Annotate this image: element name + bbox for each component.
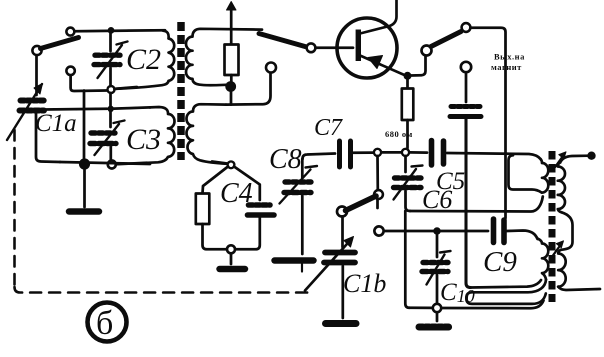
wire emitter to switch riser xyxy=(411,56,426,76)
junction dot emitter node xyxy=(404,72,412,80)
label output two-line small text xyxy=(494,52,525,62)
capacitor C6 trimmer arrow xyxy=(394,166,423,200)
wire C1a bottom stem to bottom rail xyxy=(36,113,60,162)
switch S2 moving contact xyxy=(422,46,432,56)
switch S2 arm xyxy=(431,32,461,47)
circled letter b figure label xyxy=(88,303,127,343)
wire top rail left xyxy=(75,30,166,31)
wire secondary top lead with dot xyxy=(560,156,589,163)
wire resistor R3 top lead xyxy=(406,79,409,88)
wire C5 to output transformer xyxy=(447,153,541,159)
transformer T1 upper-right winding xyxy=(186,29,262,86)
node C10 bottom circle xyxy=(433,304,441,312)
svg-text:C1b: C1b xyxy=(343,269,386,298)
ground ground1 bar xyxy=(69,208,99,215)
transistor Q1 collector xyxy=(360,0,397,34)
wire C4 bottom lead xyxy=(236,218,260,250)
capacitor C10 plates (trimmer) xyxy=(422,263,448,272)
node C3 bottom xyxy=(108,161,116,169)
svg-text:Вых.на: Вых.на xyxy=(494,52,525,62)
transformer T2 lower secondary winding xyxy=(558,250,566,287)
wire C2 bottom stem xyxy=(109,68,112,86)
capacitor C coupling plates xyxy=(450,107,481,117)
wire lower-right lead to terminal riser xyxy=(226,73,271,105)
capacitor C1b arrow xyxy=(305,240,351,291)
transformer T2 secondary arrow upper xyxy=(554,156,563,169)
label output second line xyxy=(491,62,522,72)
capacitor C1b plates xyxy=(324,253,355,263)
antenna arrowhead xyxy=(227,2,237,11)
switch S3 selected contact xyxy=(337,207,347,217)
transistor Q1 base bar xyxy=(356,30,361,62)
svg-text:C7: C7 xyxy=(314,115,343,141)
transformer T1 lower-right winding xyxy=(187,104,228,164)
wire node1 to node2 xyxy=(382,151,402,154)
capacitor C7 plates xyxy=(340,141,351,167)
node junction top rail xyxy=(108,27,115,34)
transformer T2 upper primary inner turn xyxy=(509,155,542,192)
svg-text:C6: C6 xyxy=(422,185,452,214)
terminal dot secondary top xyxy=(587,152,595,160)
wire C1a stem from switch xyxy=(35,55,38,95)
wire branch vertical x84 xyxy=(83,91,86,161)
svg-text:680 ом: 680 ом xyxy=(385,129,413,139)
dashed gang line corner and horizontal xyxy=(15,287,313,293)
wire A from C6 corner to output transformer xyxy=(410,197,543,212)
capacitor C10 trimmer arrow xyxy=(427,251,451,285)
wire C6 top stem xyxy=(404,156,407,172)
ground ground5 hatched bar xyxy=(419,324,451,331)
capacitor C8 plates (trimmer) xyxy=(284,182,311,193)
terminal contact coupling cap top xyxy=(461,62,471,72)
ground ground4 bar xyxy=(326,320,357,327)
label R3 value small text xyxy=(385,129,413,139)
wire lower-right winding to Y node xyxy=(212,162,227,164)
switch S1a terminal contact xyxy=(32,46,41,55)
resistor R3 xyxy=(402,89,414,121)
svg-text:C8: C8 xyxy=(269,144,302,175)
transistor Q1 emitter xyxy=(360,56,406,76)
wire Y node right branch xyxy=(234,167,260,201)
node Y junction xyxy=(228,161,235,168)
capacitor C9 plates xyxy=(494,219,505,243)
capacitor C8 trimmer arrow xyxy=(280,166,318,204)
wire C3 bottom stem xyxy=(109,147,112,161)
wire C8 stem xyxy=(301,159,304,178)
wire switch S3 stem from node1 xyxy=(376,156,379,190)
wire Y node left branch xyxy=(203,167,229,194)
ground ground2 bar xyxy=(220,266,246,273)
svg-text:C9: C9 xyxy=(483,246,517,278)
svg-text:магнит: магнит xyxy=(491,62,522,72)
wire node2 to C5 xyxy=(410,151,428,154)
junction dot C10 tap xyxy=(433,227,441,235)
switch S2 fixed contact xyxy=(462,23,471,32)
capacitor C2 trimmer arrow xyxy=(98,42,128,79)
capacitor C1a arrow xyxy=(7,84,42,140)
wire C10 bottom stem xyxy=(436,275,439,304)
transistor Q1 emitter arrowhead (PNP) xyxy=(368,56,383,69)
ground ground2 stem xyxy=(230,254,233,265)
terminal contact input circle xyxy=(374,226,383,235)
node C3 mid junction xyxy=(108,106,114,112)
wire C10 top stem xyxy=(436,235,439,257)
switch terminal contact C1a branch xyxy=(66,67,74,75)
wire coupling cap long stem down xyxy=(466,119,471,288)
wire rail to lower-left winding xyxy=(116,163,147,165)
transformer T2 lower primary winding xyxy=(538,239,549,280)
terminal contact base side xyxy=(307,43,316,52)
ground ground3 bar xyxy=(275,257,314,264)
capacitor C6 plates (trimmer) xyxy=(394,178,422,188)
transformer T2 upper secondary winding xyxy=(558,163,565,213)
wire switch to output column xyxy=(471,28,506,218)
switch S3 stub below pivot xyxy=(376,200,379,209)
transformer T2 upper primary winding xyxy=(541,159,549,193)
capacitor C1a plates xyxy=(20,101,45,111)
wire coupling tap y287 xyxy=(471,280,542,288)
transformer T1 upper-left winding xyxy=(115,31,175,89)
transformer T2 core xyxy=(549,151,556,302)
resistor R1 xyxy=(225,45,239,76)
node C2 bottom xyxy=(108,86,115,93)
node bottom of C4 branch xyxy=(227,245,235,253)
wire C1b bottom stem xyxy=(341,266,344,318)
capacitor C2 plates (trimmer) xyxy=(94,55,120,64)
switch S1a terminal contact xyxy=(66,28,74,36)
wire C8 bottom stem xyxy=(301,196,304,254)
transformer T2 secondary arrow upper head xyxy=(559,152,566,159)
wire R3 bottom lead xyxy=(406,120,409,148)
switch S3 arm xyxy=(346,196,377,211)
ground ground5 stem xyxy=(436,313,439,322)
wire resistor R1 bottom lead xyxy=(230,75,233,82)
wire coupling cap top stem xyxy=(465,73,468,103)
transformer T1 lower-left winding xyxy=(147,107,175,163)
wire C1a bottom plate to C3 node xyxy=(44,107,107,110)
wire secondary inter-section link xyxy=(561,212,573,250)
antenna line with arrow xyxy=(230,6,233,44)
capacitor C5 plates xyxy=(432,141,444,166)
transformer T2 secondary arrow lower head xyxy=(556,241,563,248)
capacitor C3 plates (trimmer) xyxy=(90,133,116,144)
wire C1b top stem xyxy=(341,217,344,248)
transformer T2 secondary arrow lower xyxy=(552,245,561,258)
node mid rail 2 xyxy=(402,149,409,156)
node mid rail 1 xyxy=(374,149,381,156)
wire from terminal down to C3 row xyxy=(71,75,107,91)
wire C3 top stem xyxy=(109,93,112,127)
ground ground3 stub xyxy=(301,264,303,272)
junction dot resistor bottom xyxy=(225,81,236,92)
wire top rail over antenna xyxy=(226,85,229,86)
switch S1a arm xyxy=(41,38,79,49)
transformer T1 core xyxy=(177,22,185,160)
switch S1b arm pickup wire xyxy=(259,34,305,47)
wire C7 to node xyxy=(354,151,374,154)
wire bottom rail xyxy=(60,162,150,164)
dashed gang line vertical xyxy=(13,130,16,287)
wire mid rail from C8 corner to C7 xyxy=(303,154,336,160)
capacitor C3 trimmer arrow xyxy=(95,121,125,156)
junction dot bottom rail xyxy=(79,158,90,169)
terminal contact circle mid xyxy=(266,63,276,73)
wire y231 to C9 xyxy=(384,230,488,233)
wire vertical C6 branch down to bottom wire xyxy=(405,211,409,308)
wire C2 top stem xyxy=(109,31,112,51)
transistor Q1 circle xyxy=(337,18,397,78)
wire C9 to lower primary xyxy=(507,231,538,240)
wire base lead xyxy=(316,46,354,49)
wire C3 node to lower-left winding xyxy=(114,107,150,108)
wire bottom y308 through node xyxy=(410,301,544,309)
capacitor C1b arrowhead xyxy=(344,237,354,248)
wire junction down to lower winding lead xyxy=(230,91,233,105)
wire R2 bottom lead xyxy=(203,224,227,249)
capacitor C4 plates xyxy=(248,205,275,215)
resistor R2 xyxy=(196,194,210,225)
wire C6 bottom stem to corner xyxy=(406,191,411,211)
switch S3 pivot contact xyxy=(374,190,383,199)
wire node to winding (upper left) xyxy=(115,87,138,89)
ground ground1 stem xyxy=(83,168,86,207)
capacitor C1a arrowhead xyxy=(34,84,43,95)
wire secondary bottom lead xyxy=(558,287,600,290)
transformer T2 lower primary wide turn xyxy=(466,280,546,304)
